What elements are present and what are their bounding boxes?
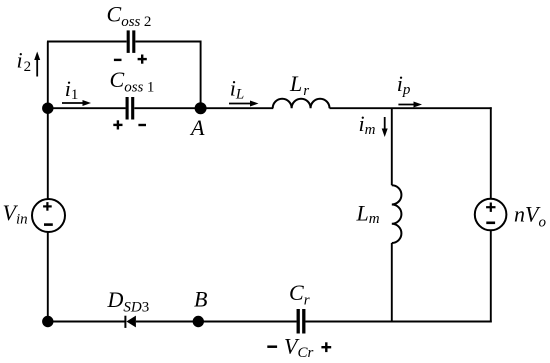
minus mark inside nVo [486,222,495,225]
source Vin circle [32,199,65,232]
wire: loop right vertical [200,41,202,109]
wire: right rail lower [490,230,492,322]
wire: middle segment from Lr to right corner [330,107,492,109]
node dot left-middle [42,103,53,114]
source nVo circle [475,199,507,231]
svg-text:Lm: Lm [356,201,380,228]
polarity marks of Coss2: - + [114,55,147,64]
current arrow i1 [62,100,91,106]
wire: Lm branch lower vertical [391,243,393,322]
current arrow im [382,117,388,137]
svg-text:Lr: Lr [289,71,309,99]
svg-text:DSD3: DSD3 [107,287,150,316]
svg-text:Vin: Vin [3,200,28,228]
wire: top loop left segment [47,41,127,43]
wire: left rail upper [47,42,49,200]
svg-text:Coss2: Coss2 [107,2,152,30]
inductor Lm [392,185,402,243]
svg-text:VCr: VCr [284,333,313,361]
current arrow ip [398,102,422,108]
svg-text:im: im [359,111,376,138]
capacitor Cr plates [298,309,304,334]
polarity marks of Coss1: + - [113,120,146,129]
svg-text:iL: iL [230,75,244,102]
wire: bottom segment left of diode [47,321,125,323]
svg-text:B: B [194,286,207,311]
svg-text:ip: ip [397,71,411,98]
svg-text:Cr: Cr [289,280,310,308]
node A dot [195,102,207,114]
wire: right rail upper [490,107,492,199]
wire: top loop right segment [135,41,201,43]
svg-text:nVo: nVo [514,202,546,231]
wire: left rail lower [47,232,49,322]
node dot bottom-left [42,316,53,327]
label VCr with polarity: - VCr + [267,333,331,361]
minus mark inside Vin [44,223,53,226]
diode DSD3 [125,316,135,328]
capacitor Coss1 plates [127,97,133,120]
node B dot [193,316,204,327]
svg-text:Coss1: Coss1 [110,67,155,95]
svg-text:i1: i1 [65,76,79,103]
inductor Lr [273,99,330,108]
capacitor Coss2 plates [128,30,134,53]
wire: middle segment from Coss1 to Lr [134,107,273,109]
wire: bottom segment right of Cr [305,321,491,323]
current arrow i2 [34,52,40,77]
wire: bottom segment diode to Cr [136,321,297,323]
svg-text:A: A [189,115,205,140]
svg-text:i2: i2 [17,48,32,75]
wire: Lm branch upper vertical [391,108,393,185]
current arrow iL [229,101,259,107]
plus mark inside Vin [43,202,52,211]
plus mark inside nVo [486,203,495,212]
wire: middle left segment [47,107,126,109]
